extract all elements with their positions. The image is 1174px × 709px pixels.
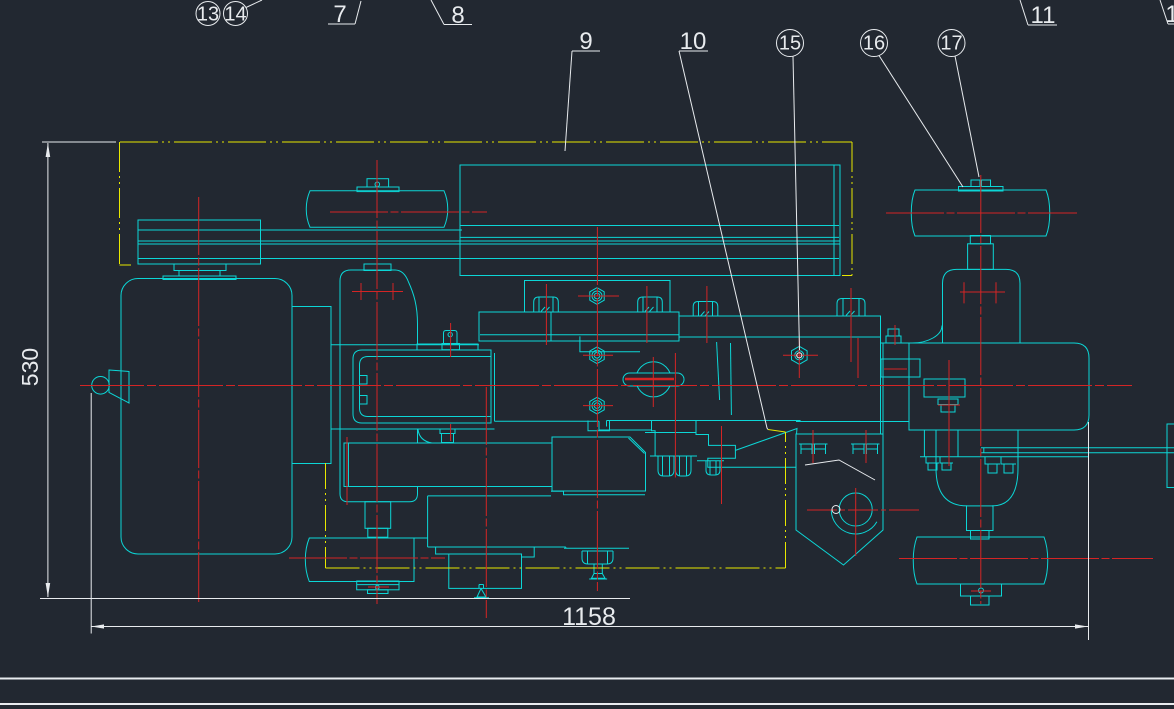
wheel W2 neck xyxy=(970,236,990,244)
plate bolt PB2 xyxy=(638,297,663,312)
long frame rail line A2 xyxy=(460,236,839,238)
yellow lower boundary diagonal xyxy=(768,430,786,433)
cap bottom edge xyxy=(138,263,261,265)
plate step vertical 580 xyxy=(580,336,640,351)
cross nut N1 horizontal xyxy=(578,295,619,297)
wheel W3 top shelf xyxy=(414,537,428,539)
bolt pair BP1 left U-bolt xyxy=(658,456,674,476)
lever stick 2 xyxy=(730,343,733,415)
hex nut N1 xyxy=(590,288,604,305)
centerline wheel W2 xyxy=(886,212,1077,214)
step line 644 xyxy=(645,432,696,434)
gear cover plate 1 xyxy=(525,281,671,313)
cross right dome tick R xyxy=(995,282,997,303)
under-block flange right xyxy=(564,547,629,549)
horn cone xyxy=(109,370,129,403)
centerline vertical hinge bolt A xyxy=(812,430,814,463)
plate 2 inner vertical xyxy=(550,312,552,341)
handle pin circle xyxy=(636,362,671,397)
leader label 11 xyxy=(1020,0,1028,25)
motor step right ledge xyxy=(551,491,645,494)
svg-text:17: 17 xyxy=(940,33,962,55)
hinge bore circle xyxy=(839,493,872,526)
left flange tier 3 xyxy=(163,276,236,280)
long frame rail line B xyxy=(138,229,462,231)
wheel W1 top bracket block xyxy=(367,179,389,187)
lower plate line left xyxy=(331,428,495,430)
motor housing top edge xyxy=(428,495,551,497)
wheel W3 flange circle xyxy=(375,585,379,589)
lower arm block xyxy=(344,443,552,487)
leader balloon 15 xyxy=(793,57,800,351)
axle left cap xyxy=(983,448,985,453)
slot bar inside pill xyxy=(625,378,674,381)
box 9 inner right edge xyxy=(833,165,835,276)
under-block bolt stem xyxy=(594,564,602,574)
motor housing mid line xyxy=(428,546,566,548)
right bogie neck step xyxy=(971,531,990,540)
bracket second vertical xyxy=(882,343,884,434)
leader label 9 xyxy=(565,51,572,151)
motor lower box xyxy=(449,554,522,588)
rail end cap plate xyxy=(138,220,261,264)
band lower line xyxy=(920,456,1089,458)
bolt pair BP1 right U-bolt xyxy=(676,456,692,476)
under-block bolt U head xyxy=(582,551,613,564)
bogie B2 neck xyxy=(365,502,391,529)
centerline vertical bolt SB1 xyxy=(450,323,452,357)
left flange tier 1 xyxy=(174,264,226,271)
centerline vertical bolt SB2 xyxy=(450,424,452,441)
band step vertical 909 xyxy=(908,343,910,359)
centerline vertical small bolt over band xyxy=(894,325,896,345)
dim 1158 extension right xyxy=(1088,422,1090,640)
centerline vertical nut column xyxy=(596,227,598,591)
wheel W3 flange step xyxy=(368,590,389,594)
third bolt seat xyxy=(697,460,724,462)
balloon 13 xyxy=(196,2,220,26)
hinge bore outer arc xyxy=(831,510,877,534)
plate ledge step xyxy=(599,421,652,430)
centerline vertical rod end xyxy=(674,353,676,478)
yellow boundary left vertical xyxy=(119,142,121,265)
plate bolt PB3 xyxy=(693,302,718,317)
band S-curve to bracket xyxy=(966,343,977,379)
wedge diagonal part 10 xyxy=(735,429,797,451)
band lower bolt group 2 xyxy=(985,457,1016,473)
cross nut N4 horizontal xyxy=(783,354,818,356)
svg-text:1158: 1158 xyxy=(562,603,616,631)
centerline wheel W4 xyxy=(899,558,1153,560)
leader balloon 17 xyxy=(955,56,979,177)
right edge bracket xyxy=(1167,424,1174,488)
wheel W4 flange xyxy=(961,584,1002,596)
anchor symbol A1 xyxy=(474,585,489,598)
hinge bracket pentagon xyxy=(796,434,883,565)
cross nut N2 horizontal xyxy=(583,354,613,356)
fuel tank body xyxy=(121,279,292,555)
small bolt SB2 under arm xyxy=(440,429,455,434)
arm right edge xyxy=(490,350,492,423)
under-block bolt foot xyxy=(589,574,607,580)
central arm inner line xyxy=(360,357,492,417)
under-band bolt box left xyxy=(923,431,925,457)
leader label 7 xyxy=(355,1,361,24)
wheel W2 top bracket plate xyxy=(959,187,1004,192)
right frame band xyxy=(909,343,1089,430)
cross bogie B2 horizontal xyxy=(352,291,403,293)
balloon 16 xyxy=(861,30,888,57)
bogie B2 fillet to block xyxy=(418,430,432,444)
dim 1158 line xyxy=(91,626,1088,628)
motor step to flange xyxy=(565,547,567,548)
centerline vertical motor xyxy=(485,387,487,618)
centerline vertical pin circle xyxy=(652,357,654,407)
cross band bracket bolt horizontal xyxy=(938,404,960,406)
svg-text:16: 16 xyxy=(863,33,885,55)
dim 530 extension top xyxy=(42,141,116,143)
leader balloon 14 xyxy=(246,0,262,8)
leader label 10 xyxy=(679,51,768,430)
border line lower xyxy=(0,703,1174,705)
hinge seat line 421 xyxy=(796,421,909,423)
cross hinge bore horizontal xyxy=(807,509,920,511)
yellow lower boundary right vertical xyxy=(785,432,787,568)
cross bogie B2 tick R xyxy=(392,283,394,300)
drive housing box 9 xyxy=(460,165,840,276)
motor step right xyxy=(522,547,535,557)
plate edge vertical 655 xyxy=(652,421,656,457)
hex nut N2 xyxy=(590,347,604,364)
band fillet arc xyxy=(912,326,942,344)
centerline vertical W2-W4 xyxy=(980,175,982,604)
wheel W1 barrel top-left xyxy=(306,191,448,227)
centerline vertical bolt PB2 xyxy=(646,286,648,343)
wheel W4 flange circle xyxy=(979,588,984,593)
cross bogie B2 tick L xyxy=(360,283,362,300)
white ring hinge xyxy=(832,506,840,514)
dim 1158 arrow right xyxy=(1075,624,1088,628)
band top extension xyxy=(881,342,910,344)
wheel W2 barrel top-right xyxy=(911,190,1050,236)
band bracket bolt body xyxy=(941,405,955,413)
bogie B2 body xyxy=(340,270,418,502)
right cover band bottom line xyxy=(679,336,881,338)
right cover band top line xyxy=(679,315,881,317)
long frame rail line E xyxy=(138,258,839,260)
wheel W1 top bracket plate xyxy=(357,187,399,192)
svg-text:1: 1 xyxy=(1165,1,1174,28)
yellow boundary right tick xyxy=(842,275,852,277)
centerline vertical hinge nut N4 xyxy=(798,338,800,378)
wheel W4 barrel bottom-right xyxy=(913,537,1048,584)
dim 530 line xyxy=(47,143,49,597)
wheel W2 stem block xyxy=(968,244,994,270)
yellow lower boundary left vertical xyxy=(325,463,327,568)
svg-text:15: 15 xyxy=(779,33,801,55)
band bracket xyxy=(924,379,965,397)
hinge hex nut N4 xyxy=(792,346,808,364)
balloon 14 xyxy=(224,2,248,26)
leader balloon 16 xyxy=(879,56,963,188)
plate bolt PB1 xyxy=(534,297,559,312)
dim 1158 extension left xyxy=(90,393,92,634)
left flange tier 2 xyxy=(179,271,220,277)
yellow boundary left tick xyxy=(120,264,132,266)
right bogie neck xyxy=(967,506,994,531)
centerline vertical block left xyxy=(346,437,348,505)
cross right dome horizontal xyxy=(960,291,1005,293)
svg-text:14: 14 xyxy=(224,4,246,26)
horn circle xyxy=(92,377,110,395)
wheel W1 bracket circle xyxy=(375,182,380,187)
right cover band right edge xyxy=(880,316,882,467)
wheel W4 flange step xyxy=(971,596,990,605)
cross bolt 894 horizontal xyxy=(884,368,907,370)
centerline vertical W1-W3 xyxy=(376,160,378,604)
hinge top bolt pair A xyxy=(799,444,828,454)
svg-text:9: 9 xyxy=(579,28,592,55)
handle slot pill xyxy=(623,373,684,386)
right gear block xyxy=(552,437,646,491)
dim 530 arrow up xyxy=(46,143,51,157)
white chevron at hinge xyxy=(805,460,875,480)
band lower bolt group 1 xyxy=(926,457,953,470)
step profile under plate xyxy=(696,421,796,468)
cross right dome tick L xyxy=(963,282,965,303)
cross W3 flange horizontal xyxy=(368,586,389,588)
wheel W3 barrel bottom-left xyxy=(305,538,414,582)
lower plate drop 606 xyxy=(606,421,608,427)
border line upper xyxy=(0,678,1174,680)
balloon 17 xyxy=(938,30,965,57)
centerline vertical bolt PB4 xyxy=(850,288,852,362)
plate bolt PB4 xyxy=(837,299,865,316)
centerline wheel W1 xyxy=(330,211,487,213)
label 11 underline xyxy=(1028,24,1057,26)
motor housing left edge xyxy=(427,496,429,547)
drop line 696 xyxy=(695,421,697,427)
wheel W1 lower flange xyxy=(364,264,391,271)
centerline vertical 858 xyxy=(857,338,859,378)
svg-text:7: 7 xyxy=(333,1,346,28)
right bogie lower dome left side xyxy=(936,431,967,506)
cross nut N3 horizontal xyxy=(583,405,613,407)
label 9 underline xyxy=(572,50,600,52)
wheel W2 top bracket block L xyxy=(971,180,980,187)
yellow boundary right vertical xyxy=(851,142,853,276)
small top plate over arm xyxy=(417,344,478,350)
hex nut N3 xyxy=(590,397,604,414)
dim 530 arrow down xyxy=(46,583,51,597)
yellow lower boundary bottom xyxy=(326,567,786,569)
leader label 8 xyxy=(431,0,444,25)
wheel W3 flange xyxy=(357,581,399,590)
band bracket bolt head xyxy=(938,399,958,405)
lower arm block inner edge xyxy=(348,443,350,487)
arm right edge second xyxy=(494,353,496,421)
lower plate top line long xyxy=(607,420,801,422)
label 12 partial leader xyxy=(1160,0,1168,24)
plate upper ledge xyxy=(495,420,600,422)
axle shaft top line xyxy=(981,447,1174,449)
right bogie upper dome xyxy=(943,269,1021,343)
gear cover plate 2 xyxy=(479,312,679,341)
small bolt over band xyxy=(886,336,901,343)
svg-text:530: 530 xyxy=(17,348,43,386)
centerline vertical lever xyxy=(721,426,723,504)
svg-text:11: 11 xyxy=(1031,2,1056,29)
centerline vertical band bracket xyxy=(948,360,950,466)
small bolt SB1 on arm top xyxy=(442,344,460,350)
centerline vertical bolt PB1 xyxy=(545,284,547,345)
central arm outer profile xyxy=(353,350,491,423)
right bogie lower dome right side xyxy=(992,431,1018,506)
long frame rail line D xyxy=(138,243,840,245)
centerline vertical hinge bore xyxy=(855,488,857,556)
band inner block left xyxy=(881,359,920,377)
axle shaft bottom line xyxy=(981,452,1174,454)
third U-bolt xyxy=(706,461,720,475)
right gear block inner chamfer line xyxy=(629,438,645,454)
plate 2 inner seam xyxy=(480,334,679,336)
balloon 15 xyxy=(777,30,804,57)
svg-text:8: 8 xyxy=(451,2,464,29)
white dot nut N4 xyxy=(797,353,802,358)
dim 1158 arrow left xyxy=(91,624,104,628)
arm inner notch lower xyxy=(360,396,368,405)
bogie B2 neck step xyxy=(368,528,388,537)
label 10 underline xyxy=(679,50,708,52)
centerline wheel W3 xyxy=(289,557,445,559)
bolt seat line xyxy=(650,455,697,457)
arm inner notch upper xyxy=(360,376,368,385)
centerline vertical hinge bolt B xyxy=(865,430,867,463)
junction box right of tank xyxy=(292,307,331,464)
under-band bolt box right xyxy=(957,431,959,457)
label 8 underline xyxy=(444,24,472,26)
cross W4 flange horizontal xyxy=(971,590,991,592)
centerline vertical tank xyxy=(198,197,200,602)
label 7 underline xyxy=(328,23,355,25)
plate link line xyxy=(331,344,479,346)
dim 530 extension bottom xyxy=(40,598,630,600)
yellow phantom boundary top xyxy=(120,141,852,143)
plate tab A xyxy=(588,421,610,431)
label 12 partial underline xyxy=(1168,23,1174,25)
lever stick 1 xyxy=(717,342,720,400)
hinge top bolt pair B xyxy=(851,444,880,454)
wheel W2 top bracket block R xyxy=(982,180,991,187)
long frame rail line C xyxy=(138,240,840,242)
centerline vertical bolt PB3 xyxy=(706,286,708,343)
svg-text:13: 13 xyxy=(197,4,219,26)
motor step left xyxy=(436,547,449,554)
long frame rail line A xyxy=(460,225,839,227)
centerline main axle horizontal xyxy=(80,385,1132,387)
svg-text:10: 10 xyxy=(680,28,707,55)
